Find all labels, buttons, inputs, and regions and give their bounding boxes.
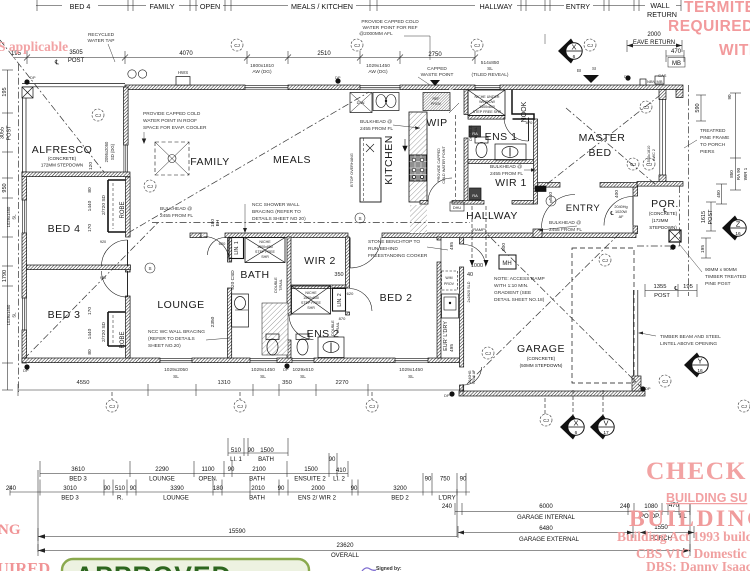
cooker grid	[410, 155, 427, 181]
svg-text:1500x850: 1500x850	[479, 105, 495, 109]
svg-text:HALLWAY: HALLWAY	[466, 210, 518, 222]
svg-text:SHR: SHR	[261, 255, 269, 259]
svg-text:2000: 2000	[647, 32, 661, 38]
svg-text:NCC SHOWER WALL: NCC SHOWER WALL	[252, 202, 300, 208]
svg-text:CJ: CJ	[646, 162, 652, 167]
svg-text:2010: 2010	[251, 485, 265, 492]
svg-text:920: 920	[100, 240, 106, 244]
RA box lower	[470, 188, 482, 200]
nook recess walls	[512, 90, 534, 120]
svg-text:SI: SI	[592, 66, 596, 71]
HWS box	[176, 77, 190, 86]
svg-text:S: S	[358, 216, 361, 221]
svg-text:BULKHEAD @: BULKHEAD @	[360, 119, 392, 125]
svg-text:1310: 1310	[218, 380, 231, 386]
svg-text:(TILED REVEAL): (TILED REVEAL)	[471, 72, 508, 78]
svg-text:RECYCLED: RECYCLED	[88, 32, 115, 38]
svg-text:2455 FROM FL: 2455 FROM FL	[549, 227, 582, 233]
svg-text:WATER TAP: WATER TAP	[87, 38, 114, 44]
shower ens2 box + X	[292, 286, 331, 314]
svg-text:PROVIDE CAPPED: PROVIDE CAPPED	[437, 148, 441, 182]
svg-text:MASTER: MASTER	[579, 132, 626, 144]
svg-text:NG: NG	[0, 522, 21, 538]
svg-text:PROVIDE CAPPED COLD: PROVIDE CAPPED COLD	[361, 19, 419, 25]
dim line 4550 row	[18, 389, 463, 391]
wall garage right (lintel opening)	[634, 290, 638, 378]
svg-text:2290: 2290	[155, 466, 169, 473]
svg-text:1500x850: 1500x850	[303, 296, 319, 300]
svg-text:COLD WATER POINT: COLD WATER POINT	[442, 146, 446, 184]
laundry WM dashed	[442, 271, 458, 290]
svg-text:D.W.: D.W.	[357, 100, 366, 105]
svg-text:1029x1450: 1029x1450	[6, 206, 11, 227]
svg-text:180: 180	[213, 485, 224, 492]
svg-text:ENS 2/ WIR 2: ENS 2/ WIR 2	[298, 495, 337, 502]
svg-text:1020W: 1020W	[615, 210, 627, 214]
svg-text:6480: 6480	[539, 525, 553, 532]
roof garage diag 2	[486, 233, 643, 389]
diamond X6 top	[558, 39, 582, 64]
leader lines	[108, 34, 702, 340]
svg-text:1029x1450: 1029x1450	[6, 304, 11, 325]
svg-text:(REFER TO DETAILS: (REFER TO DETAILS	[148, 336, 195, 342]
bottom row D garage internal	[455, 511, 690, 513]
wall wir2/bed2	[346, 237, 350, 288]
svg-text:CJ: CJ	[543, 418, 549, 423]
svg-text:SL: SL	[300, 374, 306, 380]
right dim 850	[735, 158, 737, 190]
door arc master	[542, 195, 576, 229]
svg-text:RUN BEHIND: RUN BEHIND	[368, 246, 398, 252]
hallway ramp arrows	[472, 206, 486, 262]
svg-text:90: 90	[130, 485, 137, 492]
svg-text:870: 870	[526, 120, 533, 125]
svg-text:6: 6	[573, 54, 576, 60]
svg-text:LOUNGE: LOUNGE	[157, 299, 204, 311]
ens1 toilet	[475, 137, 488, 143]
approved stamp	[62, 559, 309, 571]
dim line top row2	[13, 57, 475, 59]
svg-text:3010: 3010	[63, 485, 77, 492]
wall alfresco bottom	[22, 172, 130, 177]
svg-text:STEP FREE: STEP FREE	[301, 301, 322, 305]
svg-text:3505: 3505	[69, 50, 83, 56]
door arc bed3	[102, 271, 128, 297]
svg-text:23620: 23620	[337, 542, 355, 549]
svg-text:3390: 3390	[170, 485, 184, 492]
svg-text:1800x1810: 1800x1810	[250, 63, 274, 69]
svg-text:DP: DP	[30, 75, 36, 80]
window 514x850 SL wip	[475, 85, 500, 89]
kitchen bench strip	[409, 112, 427, 202]
svg-text:CJ: CJ	[95, 113, 101, 118]
svg-text:CJ: CJ	[237, 404, 243, 409]
svg-text:CJ: CJ	[662, 379, 668, 384]
svg-text:MEALS / KITCHEN: MEALS / KITCHEN	[291, 2, 353, 11]
family ceiling box dashed	[155, 142, 189, 175]
svg-text:2270: 2270	[336, 380, 349, 386]
svg-text:FAMILY: FAMILY	[149, 2, 174, 11]
svg-text:BUILDING SU: BUILDING SU	[666, 491, 747, 505]
svg-text:CJ: CJ	[147, 184, 153, 189]
svg-text:170: 170	[87, 307, 93, 315]
svg-text:℄: ℄	[54, 59, 60, 66]
svg-text:AW (DG): AW (DG)	[368, 69, 388, 75]
svg-text:APPROVED: APPROVED	[75, 561, 232, 571]
small notes	[23, 19, 747, 398]
svg-text:2000: 2000	[311, 485, 325, 492]
svg-text:BED: BED	[588, 147, 611, 159]
laundry sliding door marks	[440, 240, 442, 262]
wall lounge/bath	[228, 237, 232, 262]
door arc bath	[204, 237, 230, 263]
svg-text:SL: SL	[12, 214, 17, 220]
roof diag alfresco	[0, 40, 104, 172]
wall wir1 east / bulkhead to hall	[534, 119, 538, 204]
LIN 1 cupboard	[229, 238, 244, 259]
svg-text:DOUBLE: DOUBLE	[331, 320, 335, 336]
svg-text:BULKHEAD @: BULKHEAD @	[160, 206, 192, 212]
svg-text:90: 90	[278, 485, 285, 492]
svg-text:GRADIENT (SEE: GRADIENT (SEE	[494, 290, 531, 296]
svg-text:240: 240	[442, 503, 453, 510]
svg-text:TO PORCH: TO PORCH	[700, 142, 726, 148]
svg-text:SL: SL	[12, 312, 17, 318]
shower ens1 box + X brace	[468, 90, 505, 116]
svg-text:620: 620	[347, 291, 354, 296]
shower bath box + X	[245, 238, 285, 263]
BI triangle	[430, 80, 440, 86]
alfresco corner post	[22, 87, 33, 98]
svg-text:16: 16	[735, 231, 741, 237]
svg-text:DP: DP	[645, 386, 651, 391]
wall bed4/bed3 lounge side	[126, 177, 131, 237]
svg-text:16: 16	[697, 368, 703, 374]
svg-text:750: 750	[440, 476, 451, 483]
svg-text:350: 350	[334, 272, 343, 278]
dim line top row1	[36, 5, 681, 7]
svg-text:STONE BENCHTOP TO: STONE BENCHTOP TO	[368, 239, 420, 245]
door arc garage rear	[464, 367, 482, 385]
bottom row A	[228, 452, 288, 454]
svg-text:WATER POINT IN ROOF: WATER POINT IN ROOF	[143, 118, 197, 124]
svg-text:15590: 15590	[229, 528, 247, 535]
svg-text:CJ: CJ	[587, 43, 593, 48]
svg-text:CJ: CJ	[234, 43, 240, 48]
svg-text:STEP FREE: STEP FREE	[255, 250, 276, 254]
SI triangle	[583, 75, 599, 83]
svg-text:RA 90: RA 90	[736, 167, 741, 180]
top row1 label backings	[62, 1, 676, 10]
svg-text:NBN MB: NBN MB	[647, 79, 663, 84]
svg-text:AW (DG): AW (DG)	[252, 69, 272, 75]
svg-text:(50MM STEPDOWN): (50MM STEPDOWN)	[520, 363, 563, 368]
svg-text:EUR' L'DRY: EUR' L'DRY	[443, 321, 449, 351]
circle Y16	[684, 353, 708, 378]
door arc entry	[604, 197, 633, 226]
svg-text:90: 90	[727, 94, 732, 100]
CJ circles	[92, 39, 750, 426]
wall ens1 top (shower/nook base)	[468, 116, 505, 120]
svg-text:920W AF: 920W AF	[472, 370, 476, 384]
svg-text:4070: 4070	[179, 51, 193, 57]
wall bottom main	[22, 358, 160, 363]
porch edge vertical	[679, 186, 681, 246]
svg-text:1029x1450: 1029x1450	[366, 63, 390, 69]
svg-text:(CONCRETE): (CONCRETE)	[48, 156, 77, 161]
svg-text:1440: 1440	[87, 328, 93, 339]
wall master/porch south	[637, 182, 683, 187]
svg-text:LINTEL ABOVE OPENING: LINTEL ABOVE OPENING	[660, 341, 717, 347]
svg-text:1029x1450: 1029x1450	[399, 367, 423, 373]
room labels	[32, 101, 679, 368]
wall wip bottom / wir1 bottom	[420, 201, 428, 205]
roof diag bed3 sw	[24, 223, 158, 360]
svg-text:V: V	[603, 419, 608, 428]
svg-text:@2000MM AFL: @2000MM AFL	[359, 31, 393, 37]
svg-text:90: 90	[248, 447, 255, 454]
svg-text:495: 495	[449, 344, 455, 352]
TAP circles	[128, 70, 147, 78]
svg-text:R.: R.	[117, 495, 123, 502]
bottom dim labels	[6, 447, 687, 559]
dim 1355/195 porch	[645, 290, 697, 292]
ens1 vanity	[495, 144, 526, 160]
svg-text:17: 17	[603, 430, 609, 436]
svg-text:SHR: SHR	[307, 306, 315, 310]
roof garage diag 1	[467, 233, 620, 384]
svg-text:DP: DP	[444, 393, 450, 398]
window 1800x1810 top wall	[245, 85, 288, 89]
svg-text:1790: 1790	[2, 270, 8, 282]
svg-text:ROBE: ROBE	[120, 331, 126, 348]
svg-text:Z: Z	[736, 220, 741, 229]
LIN 2 cupboard	[333, 288, 346, 311]
svg-text:870: 870	[339, 316, 346, 321]
roof master diag 1	[547, 96, 659, 184]
svg-text:GARAGE EXTERNAL: GARAGE EXTERNAL	[519, 536, 580, 543]
wall bed2/laundry	[437, 237, 441, 240]
porch bottom	[637, 245, 680, 247]
robe bed4	[108, 180, 126, 232]
svg-text:SL: SL	[173, 374, 179, 380]
svg-text:BED 2: BED 2	[391, 495, 409, 502]
bottom row C	[10, 491, 470, 493]
survey line garage cj	[544, 398, 546, 414]
svg-text:POST: POST	[708, 209, 714, 225]
svg-text:350: 350	[282, 380, 292, 386]
svg-text:GARAGE INTERNAL: GARAGE INTERNAL	[517, 514, 576, 521]
DHU box	[450, 202, 464, 211]
svg-text:BH: BH	[215, 219, 221, 226]
wall entry east	[633, 186, 638, 196]
svg-text:3200: 3200	[393, 485, 407, 492]
svg-text:ROBE: ROBE	[120, 201, 126, 218]
wall master window east	[659, 90, 666, 100]
svg-text:2100: 2100	[252, 466, 266, 473]
svg-text:195: 195	[683, 284, 693, 290]
svg-text:2455 FROM FL: 2455 FROM FL	[160, 213, 193, 219]
ens2 vanity	[318, 337, 344, 358]
wall left outer	[22, 172, 27, 200]
svg-text:410: 410	[336, 467, 347, 474]
door arc bed4	[102, 240, 128, 266]
svg-text:80: 80	[87, 187, 93, 193]
diamond X6 bottom	[560, 415, 584, 440]
bottom windows thin lines	[160, 358, 428, 362]
svg-text:DHU: DHU	[453, 206, 461, 210]
door arc laundry-garage	[464, 245, 486, 267]
svg-text:ENS 1: ENS 1	[485, 131, 518, 143]
roof valley ne family	[128, 92, 369, 233]
MH box	[499, 255, 516, 269]
bath toilet	[266, 334, 279, 340]
bath vanity	[232, 294, 249, 327]
svg-text:MH: MH	[502, 261, 511, 267]
svg-text:2455 FROM FL: 2455 FROM FL	[360, 126, 393, 132]
svg-text:TREATRED: TREATRED	[700, 128, 726, 134]
tiny dims in plan	[77, 73, 656, 387]
svg-text:1029x1450: 1029x1450	[251, 367, 275, 373]
wip arrow	[449, 103, 459, 113]
svg-text:6: 6	[575, 430, 578, 436]
svg-text:950: 950	[2, 183, 8, 192]
svg-text:CJ: CJ	[630, 162, 636, 167]
svg-text:1500: 1500	[260, 447, 274, 454]
svg-text:GARAGE: GARAGE	[517, 343, 565, 355]
svg-text:TIMBER BEAM AND STEEL: TIMBER BEAM AND STEEL	[660, 334, 721, 340]
S circles	[145, 196, 556, 273]
svg-text:450: 450	[716, 190, 721, 198]
svg-text:195: 195	[700, 245, 706, 253]
svg-text:EAVE RETURN: EAVE RETURN	[633, 40, 675, 46]
svg-text:WINDOW: WINDOW	[479, 100, 495, 104]
top row2 labels	[11, 32, 682, 67]
svg-text:MEALS: MEALS	[273, 154, 311, 166]
bottom row B	[40, 473, 348, 475]
svg-text:FREESTANDING COOKER: FREESTANDING COOKER	[368, 253, 428, 259]
svg-text:PROV: PROV	[444, 282, 455, 286]
bottom row F 15590	[38, 536, 457, 538]
svg-text:HALLWAY: HALLWAY	[479, 2, 512, 11]
svg-text:WATER POINT FOR REF: WATER POINT FOR REF	[362, 25, 417, 31]
right column labels	[609, 94, 748, 299]
svg-text:195: 195	[2, 87, 8, 96]
svg-text:℄: ℄	[673, 286, 678, 292]
svg-text:620: 620	[219, 241, 226, 246]
eave line left	[18, 64, 20, 392]
svg-text:BULKHEAD @: BULKHEAD @	[490, 164, 522, 170]
svg-text:NOTE: ACCESS RAMP: NOTE: ACCESS RAMP	[494, 276, 545, 282]
svg-text:LI. 2: LI. 2	[333, 476, 345, 483]
DP dots	[24, 75, 675, 396]
svg-text:REF: REF	[433, 97, 440, 101]
svg-text:CJ: CJ	[474, 43, 480, 48]
svg-text:OPEN.: OPEN.	[199, 476, 218, 483]
bottom row E garage external	[458, 532, 694, 534]
svg-text:DETAIL SHEET NO.18): DETAIL SHEET NO.18)	[494, 297, 545, 303]
svg-text:Y: Y	[697, 357, 702, 366]
svg-text:1615: 1615	[701, 211, 707, 223]
svg-text:514x850: 514x850	[481, 60, 500, 66]
window 1029x1450 top wall	[360, 85, 400, 89]
svg-text:ENTRY: ENTRY	[566, 2, 590, 11]
svg-text:90: 90	[228, 466, 235, 473]
svg-text:PINE FRAME: PINE FRAME	[700, 135, 729, 141]
svg-text:SL: SL	[408, 374, 414, 380]
svg-text:CJ: CJ	[741, 404, 747, 409]
svg-text:(172MM: (172MM	[652, 218, 669, 223]
svg-text:240: 240	[6, 485, 17, 492]
wip bulkhead dashed	[455, 115, 457, 200]
470 MB dim	[666, 55, 684, 57]
wall wip east	[464, 90, 468, 115]
svg-text:80: 80	[87, 349, 93, 355]
door arc hall/lounge	[208, 238, 226, 256]
NBN dot	[640, 79, 646, 85]
right dim 195	[705, 238, 707, 258]
svg-text:CJ: CJ	[369, 404, 375, 409]
svg-text:S: S	[549, 199, 552, 204]
svg-text:Signed by:: Signed by:	[376, 566, 402, 571]
svg-text:WALL: WALL	[650, 1, 669, 10]
svg-text:X: X	[573, 419, 578, 428]
svg-text:RA: RA	[472, 131, 478, 136]
diamond Z16	[722, 216, 746, 241]
garage door dashed panel	[572, 248, 634, 383]
svg-text:90: 90	[104, 485, 111, 492]
svg-text:BATH: BATH	[240, 269, 269, 281]
svg-text:90: 90	[460, 476, 467, 483]
svg-text:STEPDOWN): STEPDOWN)	[649, 225, 677, 230]
svg-text:L'DRY: L'DRY	[438, 495, 455, 502]
svg-text:PIERS: PIERS	[700, 149, 714, 155]
kitchen island bench	[360, 138, 381, 202]
svg-text:SL: SL	[260, 374, 266, 380]
svg-text:OPEN: OPEN	[200, 2, 220, 11]
svg-text:PROV: PROV	[431, 102, 442, 106]
svg-text:BATH: BATH	[258, 456, 274, 463]
RA box upper	[469, 126, 481, 137]
svg-text:600: 600	[501, 243, 507, 251]
svg-text:510: 510	[231, 447, 242, 454]
svg-text:POST: POST	[654, 293, 670, 299]
right dim 590	[700, 95, 702, 121]
svg-text:W/M: W/M	[445, 276, 452, 280]
svg-text:CJ: CJ	[109, 404, 115, 409]
svg-text:BRACING (REFER TO: BRACING (REFER TO	[252, 209, 301, 215]
right dim 1615 post	[710, 202, 712, 231]
svg-text:LI. 1: LI. 1	[230, 456, 242, 463]
svg-text:UIRED: UIRED	[0, 559, 50, 571]
roof ridge horizontal	[152, 222, 470, 224]
svg-text:1029x2050: 1029x2050	[164, 367, 188, 373]
svg-text:WIR 1: WIR 1	[495, 177, 527, 189]
wall master bottom / entry top	[537, 183, 560, 188]
right dim 450	[721, 184, 723, 204]
svg-text:3610: 3610	[71, 466, 85, 473]
svg-text:WIP: WIP	[426, 117, 447, 129]
svg-text:LIN. 2: LIN. 2	[337, 293, 343, 307]
svg-text:NCC WC WALL BRACING: NCC WC WALL BRACING	[148, 329, 205, 335]
svg-text:920 CSD: 920 CSD	[230, 270, 236, 290]
svg-text:POR.: POR.	[651, 198, 679, 210]
svg-text:2455 FROM FL: 2455 FROM FL	[490, 171, 523, 177]
svg-text:TERMITE: TERMITE	[684, 0, 750, 16]
svg-text:920: 920	[100, 276, 106, 280]
svg-text:LOUNGE: LOUNGE	[163, 495, 189, 502]
svg-text:(CONCRETE): (CONCRETE)	[649, 211, 678, 216]
